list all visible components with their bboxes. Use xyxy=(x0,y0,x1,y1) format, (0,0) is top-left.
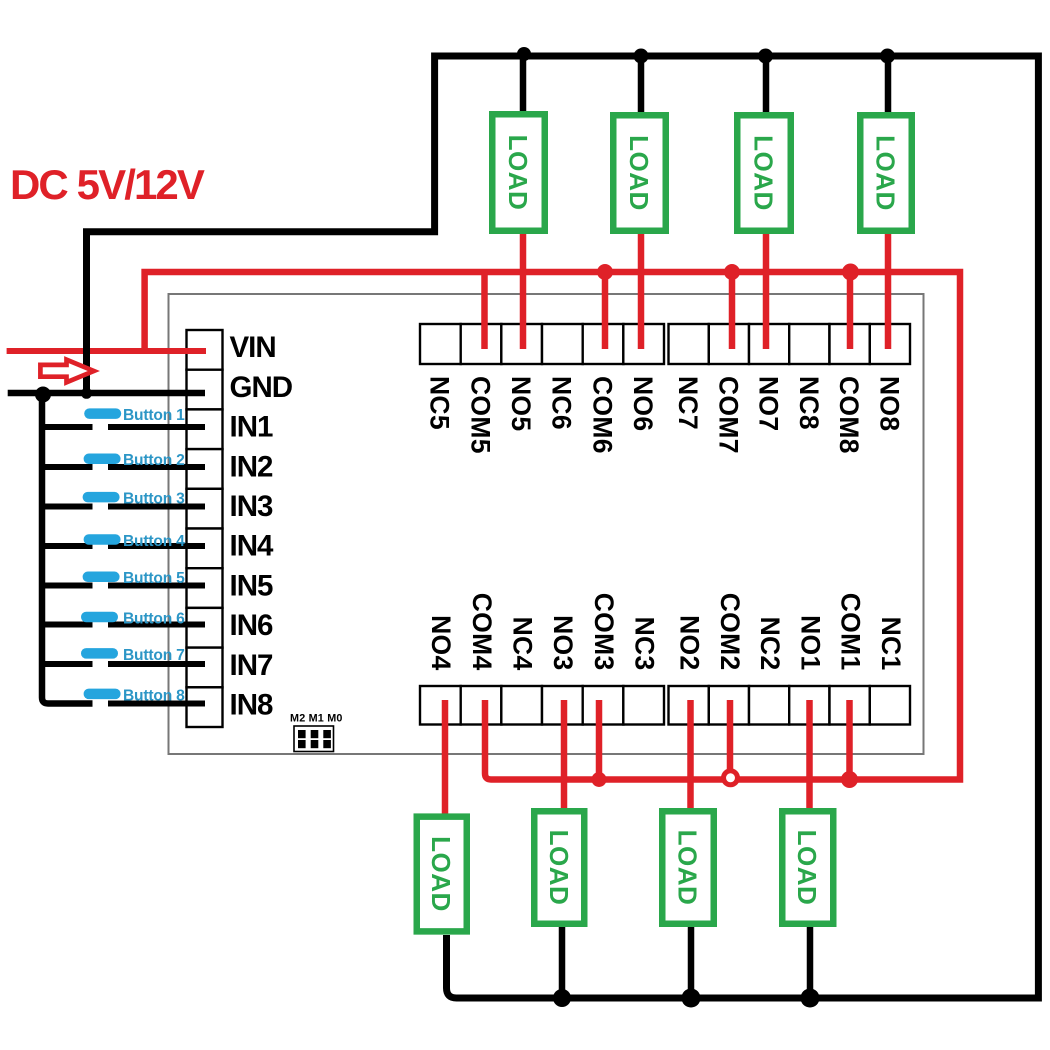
wire: switch right segment to IN8 xyxy=(108,701,205,707)
junction red bus / COM2 (open ring) xyxy=(724,771,738,785)
button B7 actuator xyxy=(81,648,118,659)
svg-text:LOAD: LOAD xyxy=(871,135,901,211)
wire: black LOAD3 to bottom bus xyxy=(559,927,566,998)
svg-text:LOAD: LOAD xyxy=(792,830,822,906)
junction red bus / COM6 xyxy=(597,264,613,280)
wire: black top bus to LOAD5 xyxy=(520,56,527,113)
svg-text:DC 5V/12V: DC 5V/12V xyxy=(10,161,205,208)
button B1 actuator xyxy=(84,408,121,419)
wire: switch left segment IN2 xyxy=(43,464,93,470)
wire: switch right segment to IN3 xyxy=(108,504,205,510)
wire: red COM3 to bus xyxy=(596,700,603,780)
svg-text:COM1: COM1 xyxy=(836,593,866,671)
junction GND / supply xyxy=(81,388,92,399)
wire: red NO3 to LOAD xyxy=(561,700,568,810)
svg-text:NO4: NO4 xyxy=(426,615,456,670)
wire: red VIN supply line xyxy=(7,348,206,354)
wire: red NO2 to LOAD xyxy=(687,700,694,810)
wire: red stub bus to COM7 xyxy=(729,272,736,349)
wire: black GND line xyxy=(8,390,205,397)
junction red bus / COM3 xyxy=(592,772,607,787)
junction top bus / LOAD8 wire xyxy=(880,49,895,64)
svg-text:LOAD: LOAD xyxy=(673,830,703,906)
load box L8 xyxy=(782,811,833,924)
svg-text:IN6: IN6 xyxy=(230,609,274,642)
svg-text:Button 2: Button 2 xyxy=(123,452,185,469)
wire: switch right segment to IN4 xyxy=(108,543,205,549)
wire: red COM2 to bus xyxy=(727,700,734,780)
button B3 actuator xyxy=(83,492,120,503)
svg-text:NO3: NO3 xyxy=(548,615,578,670)
button B2 actuator xyxy=(84,454,121,465)
svg-text:Button 3: Button 3 xyxy=(123,491,185,508)
bottom terminal block (relays 1-4) xyxy=(420,686,910,725)
wire: switch left segment IN3 xyxy=(43,504,93,510)
relay module board outline xyxy=(169,294,924,754)
top terminal block (relays 5-8) xyxy=(420,324,910,364)
svg-text:IN3: IN3 xyxy=(230,490,274,523)
wire: switch left segment IN4 xyxy=(43,543,93,549)
svg-text:IN1: IN1 xyxy=(230,411,274,444)
svg-text:IN5: IN5 xyxy=(230,569,274,602)
wire: button common bus xyxy=(42,393,93,704)
wire: switch left segment IN7 xyxy=(43,661,93,667)
wire: switch right segment to IN7 xyxy=(108,661,205,667)
svg-text:LOAD: LOAD xyxy=(749,135,779,211)
svg-text:LOAD: LOAD xyxy=(503,135,533,211)
svg-text:COM2: COM2 xyxy=(715,593,745,671)
svg-text:NC7: NC7 xyxy=(673,376,703,430)
svg-text:Button 7: Button 7 xyxy=(123,647,185,664)
wire: switch left segment IN1 xyxy=(43,424,93,430)
load box L3 xyxy=(737,115,791,231)
load box L1 xyxy=(492,114,545,231)
svg-text:LOAD: LOAD xyxy=(544,830,574,906)
wire: switch left segment IN5 xyxy=(43,583,93,589)
svg-text:NC3: NC3 xyxy=(630,617,660,671)
junction bottom bus / LOAD3 xyxy=(553,989,571,1007)
junction red bus / COM8 xyxy=(842,264,859,281)
wire: red LOAD to NO8 xyxy=(885,234,892,349)
wire: red LOAD to NO7 xyxy=(763,234,770,349)
svg-text:GND: GND xyxy=(230,371,293,404)
svg-text:LOAD: LOAD xyxy=(624,135,654,211)
svg-text:COM3: COM3 xyxy=(589,593,619,671)
svg-text:COM6: COM6 xyxy=(587,376,617,454)
load box L5 xyxy=(417,817,467,932)
wire: red LOAD to NO5 xyxy=(520,234,527,349)
svg-text:COM8: COM8 xyxy=(834,376,864,454)
svg-text:Button 5: Button 5 xyxy=(123,570,185,587)
svg-text:VIN: VIN xyxy=(230,331,276,364)
svg-text:IN8: IN8 xyxy=(230,689,274,722)
junction red bus / COM7 xyxy=(724,264,740,280)
wire: switch left segment IN6 xyxy=(43,622,93,628)
mode jumper block xyxy=(294,726,334,752)
svg-text:NC2: NC2 xyxy=(755,617,785,671)
svg-text:COM7: COM7 xyxy=(713,376,743,454)
svg-text:LOAD: LOAD xyxy=(426,836,456,912)
svg-text:NC4: NC4 xyxy=(508,617,538,671)
wire: red COM1 to bus xyxy=(846,700,853,780)
junction top bus / LOAD5 wire xyxy=(517,47,531,61)
wire: red stub bus to COM5 xyxy=(481,272,488,349)
svg-text:NC6: NC6 xyxy=(547,376,577,430)
left pin header (VIN GND IN1-IN8) xyxy=(187,330,223,727)
svg-text:IN4: IN4 xyxy=(230,530,275,563)
junction red bus / COM1 xyxy=(841,771,858,788)
wire: switch right segment to IN6 xyxy=(108,622,205,628)
load box L2 xyxy=(613,115,666,231)
svg-text:Button 6: Button 6 xyxy=(123,610,185,627)
button B8 actuator xyxy=(84,689,121,700)
svg-text:NO1: NO1 xyxy=(795,615,825,670)
svg-text:NO8: NO8 xyxy=(874,376,904,431)
wire: black LOAD2 to bottom bus xyxy=(688,927,695,998)
wire: red stub bus to COM6 xyxy=(602,272,609,349)
load box L4 xyxy=(860,115,912,231)
svg-text:Button 4: Button 4 xyxy=(123,533,185,550)
svg-text:NO6: NO6 xyxy=(628,376,658,431)
junction bottom bus / LOAD2 xyxy=(682,989,701,1008)
wire: black LOAD1 to bottom bus xyxy=(807,927,814,998)
junction bottom bus / LOAD1 xyxy=(801,989,820,1008)
wire: black top bus to LOAD8 xyxy=(885,56,892,113)
wire: switch right segment to IN5 xyxy=(108,583,205,589)
load box L6 xyxy=(534,811,584,924)
button B4 actuator xyxy=(84,534,121,545)
wire: switch right segment to IN1 xyxy=(108,424,205,430)
supply direction arrow xyxy=(40,360,93,383)
svg-text:COM4: COM4 xyxy=(467,593,497,671)
wire: red +V bus (top, right side, bottom) xyxy=(145,272,960,780)
wire: red LOAD to NO6 xyxy=(638,234,645,349)
wire: black top bus to LOAD7 xyxy=(763,56,770,113)
svg-text:NC8: NC8 xyxy=(794,376,824,430)
junction GND / button bus xyxy=(35,387,51,403)
load box L7 xyxy=(662,811,714,924)
svg-text:IN7: IN7 xyxy=(230,649,274,682)
wire: switch right segment to IN2 xyxy=(108,464,205,470)
svg-text:NO2: NO2 xyxy=(675,615,705,670)
junction top bus / LOAD7 wire xyxy=(758,49,773,64)
svg-text:Button 1: Button 1 xyxy=(123,407,185,424)
junction top bus / LOAD6 wire xyxy=(634,49,649,64)
svg-text:NO5: NO5 xyxy=(506,376,536,431)
wire: black top bus to LOAD6 xyxy=(638,56,645,113)
svg-text:NC1: NC1 xyxy=(876,617,906,671)
svg-text:NC5: NC5 xyxy=(425,376,455,430)
button B5 actuator xyxy=(83,572,120,583)
wire: red stub bus to COM8 xyxy=(847,272,854,349)
svg-text:Button 8: Button 8 xyxy=(123,687,185,704)
svg-text:IN2: IN2 xyxy=(230,450,274,483)
svg-text:COM5: COM5 xyxy=(465,376,495,454)
button B6 actuator xyxy=(81,612,118,623)
wire: red NO4 to LOAD xyxy=(442,700,449,814)
wire: red NO1 to LOAD xyxy=(806,700,813,810)
svg-text:NO7: NO7 xyxy=(754,376,784,431)
svg-text:M2 M1 M0: M2 M1 M0 xyxy=(290,713,343,725)
